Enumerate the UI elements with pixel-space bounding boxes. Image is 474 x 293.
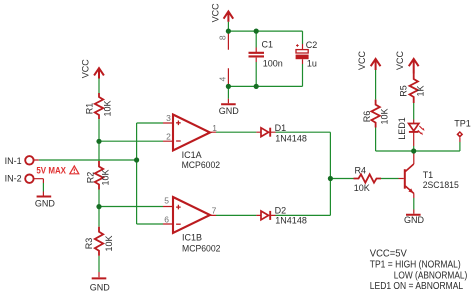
- svg-text:1N4148: 1N4148: [275, 216, 307, 226]
- svg-text:GND: GND: [404, 215, 425, 225]
- svg-text:C2: C2: [306, 40, 318, 50]
- svg-text:1u: 1u: [307, 58, 317, 68]
- svg-text:VCC: VCC: [211, 3, 221, 23]
- svg-text:D2: D2: [275, 205, 287, 215]
- svg-text:T1: T1: [423, 170, 434, 180]
- svg-text:MCP6002: MCP6002: [182, 160, 221, 170]
- svg-text:IC1A: IC1A: [182, 150, 202, 160]
- svg-text:LOW (ABNORMAL): LOW (ABNORMAL): [394, 270, 468, 281]
- svg-text:1N4148: 1N4148: [275, 133, 307, 143]
- svg-text:R1: R1: [85, 103, 95, 115]
- svg-text:5: 5: [164, 195, 169, 205]
- svg-text:R5: R5: [398, 85, 408, 97]
- svg-text:10K: 10K: [354, 183, 370, 193]
- svg-text:10K: 10K: [379, 108, 389, 124]
- svg-text:VCC: VCC: [395, 51, 405, 71]
- svg-text:VCC: VCC: [357, 51, 367, 71]
- svg-text:GND: GND: [90, 283, 111, 293]
- svg-text:TP1: TP1: [454, 119, 471, 129]
- svg-text:5V MAX: 5V MAX: [36, 165, 66, 175]
- svg-text:VCC: VCC: [80, 59, 90, 79]
- svg-text:10K: 10K: [104, 235, 114, 251]
- svg-text:2SC1815: 2SC1815: [423, 180, 459, 190]
- svg-text:7: 7: [212, 206, 217, 216]
- svg-text:IC1B: IC1B: [182, 233, 202, 243]
- svg-text:R4: R4: [355, 165, 367, 175]
- svg-text:1K: 1K: [416, 85, 426, 96]
- svg-text:LED1: LED1: [397, 117, 407, 140]
- svg-text:10K: 10K: [101, 169, 111, 185]
- svg-text:R2: R2: [86, 172, 96, 184]
- svg-text:6: 6: [164, 214, 169, 224]
- svg-text:R3: R3: [84, 238, 94, 250]
- svg-text:IN-1: IN-1: [5, 156, 22, 166]
- svg-text:3: 3: [166, 113, 171, 123]
- svg-text:100n: 100n: [263, 58, 283, 68]
- svg-text:2: 2: [166, 132, 171, 142]
- svg-text:10K: 10K: [103, 100, 113, 116]
- svg-text:C1: C1: [262, 40, 274, 50]
- svg-text:GND: GND: [35, 199, 56, 209]
- svg-text:IN-2: IN-2: [5, 174, 22, 184]
- svg-text:LED1 ON = ABNORMAL: LED1 ON = ABNORMAL: [370, 281, 464, 292]
- svg-text:MCP6002: MCP6002: [182, 243, 221, 253]
- svg-text:1: 1: [212, 123, 217, 133]
- svg-text:VCC=5V: VCC=5V: [370, 249, 407, 260]
- svg-text:TP1 = HIGH (NORMAL): TP1 = HIGH (NORMAL): [370, 260, 461, 271]
- svg-text:8: 8: [217, 35, 227, 40]
- svg-text:R6: R6: [362, 111, 372, 123]
- svg-text:4: 4: [217, 77, 227, 82]
- svg-text:GND: GND: [219, 106, 240, 116]
- svg-text:D1: D1: [275, 123, 287, 133]
